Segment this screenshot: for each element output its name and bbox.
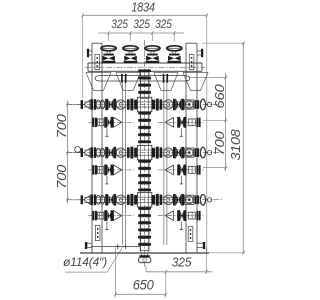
dim 1834 overall width (82, 13, 208, 17)
support funnel bracket (86, 73, 111, 91)
top valve V2 with handwheel (123, 46, 138, 63)
left dim column 700/700 (67, 101, 85, 204)
sub-valve level 1 right (cone left) (165, 117, 200, 136)
svg-text:ø114(4″): ø114(4″) (63, 255, 107, 269)
sub-valve level 3 right (cone left) (165, 210, 200, 229)
right dim column 660/700 (190, 73, 228, 171)
nameplate tag lower right (188, 227, 193, 242)
bottom dim 650 (114, 248, 167, 298)
sub-valve level 3 centerline left (89, 215, 135, 217)
svg-text:325: 325 (133, 19, 150, 31)
extension line left 1834 (82, 15, 84, 98)
svg-text:650: 650 (133, 277, 154, 293)
top valve V1 with handwheel (101, 46, 116, 63)
riser pipe left (122, 83, 125, 245)
svg-text:700: 700 (55, 114, 69, 138)
svg-text:325: 325 (111, 19, 128, 31)
sub-valve level 2 left (cone right) (92, 165, 122, 184)
nameplate tag lower left (95, 226, 100, 241)
sub-valve level 3 left (cone right) (92, 210, 122, 229)
leader line to drain pipe (107, 247, 122, 272)
left support leg (92, 43, 102, 253)
right support leg (186, 43, 197, 253)
nameplate tag upper right (189, 55, 194, 70)
central column pipe walls (141, 69, 149, 252)
sub-valve level 1 centerline left (89, 121, 135, 123)
svg-text:700: 700 (213, 131, 227, 155)
below-header distribution pipe (95, 74, 190, 83)
sub-valve level 3 centerline right (158, 215, 204, 217)
svg-text:325: 325 (172, 256, 192, 270)
manifold row 1 centerline (66, 104, 222, 106)
sub-valve level 1 left (cone right) (92, 117, 122, 136)
dim row 325 x3 top (98, 31, 184, 41)
nameplate tag upper left (95, 55, 100, 70)
column flange stack row1-row2 (138, 112, 151, 143)
support funnel bracket (116, 73, 140, 91)
manifold row 1 piping (81, 97, 212, 111)
bottom dim 325 (146, 248, 213, 274)
column flange stack row3-base (138, 207, 151, 250)
support funnel bracket (154, 73, 178, 91)
sub-valve level 2 right (cone left) (165, 165, 200, 184)
drain pipe horizontal (91, 244, 141, 249)
top valve V3 with handwheel (145, 46, 160, 63)
column flange stack header-row1 (138, 70, 151, 99)
underline of pipe label (65, 271, 107, 273)
svg-text:1834: 1834 (131, 0, 154, 15)
svg-text:325: 325 (155, 19, 172, 31)
sub-valve level 2 centerline left (89, 169, 135, 171)
outlet bell below base (138, 253, 151, 263)
svg-text:700: 700 (55, 165, 69, 189)
extension from outlet to dim 325 (145, 266, 147, 272)
manifold row 2 centerline (66, 152, 222, 154)
svg-text:3108: 3108 (228, 128, 243, 160)
header right nozzle blind flange (197, 49, 203, 57)
central column centerline (144, 40, 146, 267)
right base lug (197, 242, 205, 249)
extension line right 1834 (206, 15, 208, 253)
sub-valve level 1 centerline right (158, 121, 204, 123)
svg-text:660: 660 (213, 84, 227, 108)
base beam (80, 252, 209, 254)
header left nozzle blind flange (87, 49, 92, 57)
dim 3108 overall height (202, 41, 245, 254)
top valve V4 with handwheel (167, 46, 182, 63)
header vessel (85, 63, 205, 71)
manifold row 2 piping (81, 145, 212, 159)
column flange stack row2-row3 (138, 160, 151, 191)
riser pipe right (164, 83, 167, 245)
manifold row 3 piping (81, 193, 212, 207)
manifold row 3 centerline (66, 199, 222, 201)
support funnel bracket (183, 73, 208, 91)
sub-valve level 2 centerline right (158, 169, 204, 171)
left base lug (85, 242, 92, 249)
hoist ring symbol (75, 147, 81, 153)
